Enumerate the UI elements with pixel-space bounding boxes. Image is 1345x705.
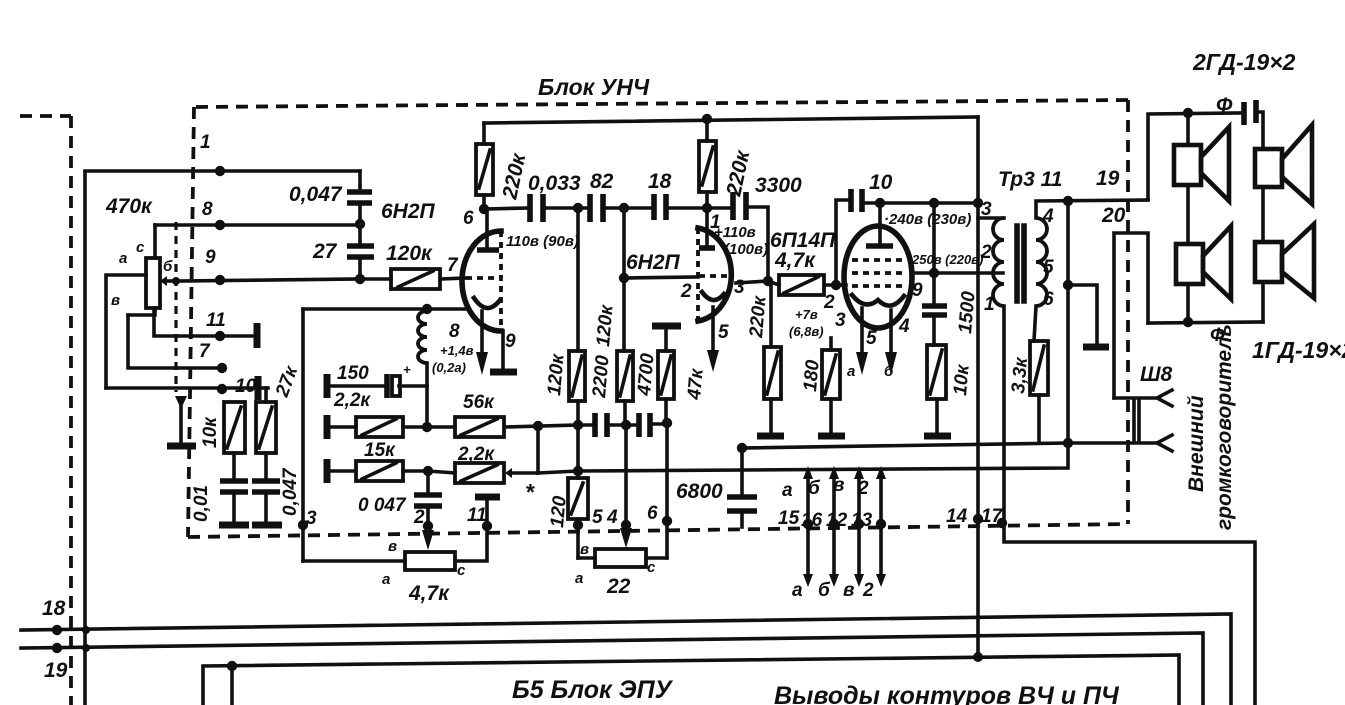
- cathode lead a with arrow: [860, 308, 864, 352]
- svg-text:в: в: [843, 580, 854, 601]
- svg-text:47к: 47к: [684, 367, 708, 402]
- triode V1b envelope arc: [698, 228, 731, 321]
- svg-text:2: 2: [857, 478, 869, 499]
- output tube cathode arc: [852, 295, 904, 306]
- svg-text:220к: 220к: [746, 294, 771, 339]
- lead 10к bottom: [232, 453, 236, 480]
- connector body parallel lines: [1134, 400, 1139, 441]
- node dot wire 9 wiper: [172, 277, 180, 285]
- speaker B horn: [1282, 125, 1312, 204]
- volume pot wiper arrow: [167, 279, 176, 283]
- electrolytic 150,0 cap: [399, 384, 427, 388]
- svg-text:2: 2: [862, 580, 874, 601]
- svg-text:б: б: [808, 478, 821, 499]
- node dot wire 1: [215, 166, 225, 176]
- transformer core bars: [1017, 226, 1024, 301]
- output tube 6П14П envelope: [844, 226, 912, 328]
- transformer primary winding: [978, 216, 1004, 220]
- svg-text:Ф: Ф: [1216, 94, 1233, 117]
- connector top pin fork: [1157, 390, 1172, 406]
- svg-text:в: в: [833, 475, 844, 496]
- wire 8: [155, 223, 360, 227]
- svg-text:2: 2: [823, 292, 835, 313]
- node dot cap junction w8: [355, 219, 365, 229]
- svg-text:4,7к: 4,7к: [774, 249, 816, 272]
- secondary bottom to 3,3к: [1034, 306, 1036, 341]
- stub wire into ЭПУ box: [230, 666, 234, 705]
- B+ vertical wire 14: [976, 117, 980, 655]
- svg-text:с: с: [457, 562, 466, 579]
- resistor row3: [356, 461, 403, 481]
- svg-text:16: 16: [801, 510, 823, 531]
- svg-text:(100в): (100в): [724, 241, 768, 258]
- svg-text:0 047: 0 047: [358, 495, 407, 516]
- node dot anode V1b: [702, 203, 712, 213]
- svg-text:22: 22: [606, 575, 631, 598]
- svg-text:15: 15: [778, 508, 800, 529]
- svg-text:2: 2: [680, 281, 692, 302]
- triode V1a pin 9 lead: [501, 331, 505, 370]
- capacitor 0,047 shunt: [252, 481, 280, 492]
- node dot cap 0,047 branch: [423, 466, 433, 476]
- resistor 4,7к grid stopper: [768, 281, 779, 285]
- svg-text:Внешний: Внешний: [1185, 395, 1208, 492]
- svg-text:12: 12: [826, 510, 848, 531]
- resistor 10к: [927, 345, 946, 399]
- svg-text:19: 19: [44, 659, 68, 682]
- node dot wire 8: [215, 220, 225, 230]
- speaker bottom wire: [1148, 322, 1263, 323]
- triode V1b flat dashed side: [696, 228, 700, 321]
- resistor 47к leg: [652, 323, 681, 330]
- connector bottom pin fork: [1157, 435, 1172, 451]
- wire 9: [176, 279, 360, 281]
- svg-text:3: 3: [835, 310, 846, 331]
- svg-text:5: 5: [866, 328, 877, 349]
- triode V1b pin3 lead: [736, 281, 768, 283]
- svg-text:4700: 4700: [634, 352, 659, 397]
- dashed lead-in top-left: [20, 114, 71, 118]
- svg-text:3,3к: 3,3к: [1008, 355, 1032, 394]
- speaker D horn: [1282, 224, 1314, 298]
- svg-text:а: а: [782, 480, 793, 501]
- capacitor 0,047 tone: [426, 471, 430, 494]
- triode V1b grid dashes: [699, 274, 728, 278]
- svg-text:7: 7: [447, 255, 459, 276]
- svg-text:13: 13: [851, 510, 873, 531]
- capacitor 1500: [922, 306, 947, 315]
- capacitor 6800: [740, 448, 744, 497]
- svg-text:а: а: [382, 571, 390, 588]
- svg-text:180: 180: [800, 359, 824, 393]
- central feedback vertical: [425, 386, 429, 427]
- svg-text:120к: 120к: [386, 242, 433, 265]
- screen bypass branch: [932, 203, 936, 306]
- ground bar 10к: [924, 433, 951, 440]
- triode V1a anode lead: [485, 209, 489, 250]
- grid wire V1b: [624, 277, 698, 278]
- terminal bar pin 11b: [475, 494, 500, 501]
- svg-text:120к: 120к: [593, 303, 618, 347]
- wire ЭПУ box top line: [203, 655, 1179, 705]
- speaker return vertical: [1066, 201, 1070, 443]
- svg-text:3: 3: [981, 199, 992, 220]
- terminal bar row2: [324, 415, 331, 439]
- resistor 3,3к: [1030, 341, 1048, 395]
- speaker loop right vertical: [1261, 187, 1265, 322]
- svg-text:120к: 120к: [544, 352, 569, 396]
- svg-text:0,01: 0,01: [191, 485, 212, 522]
- wire from pot left to down bus: [106, 275, 146, 388]
- cathode lead b with arrow: [889, 310, 893, 352]
- hum coil winding: [418, 311, 427, 363]
- svg-text:Блок УНЧ: Блок УНЧ: [538, 74, 650, 100]
- lead 120к to tube grid: [440, 278, 466, 279]
- speaker D square: [1255, 242, 1282, 282]
- vertical 56к to wiper: [536, 426, 540, 473]
- svg-text:1500: 1500: [955, 290, 980, 334]
- svg-text:0,047: 0,047: [280, 467, 301, 516]
- svg-text:+1,4в: +1,4в: [440, 343, 474, 358]
- svg-text:8: 8: [202, 199, 213, 220]
- svg-text:9: 9: [505, 331, 516, 352]
- svg-text:Тр3 11: Тр3 11: [998, 168, 1062, 191]
- dashed box Блок УНЧ bottom edge: [188, 524, 1128, 537]
- speaker C horn: [1203, 226, 1231, 299]
- connector top pin wire: [1114, 396, 1157, 400]
- triode V1b cathode lead with arrow: [711, 307, 715, 350]
- speaker A horn: [1201, 127, 1229, 201]
- node dot pin 3: [298, 520, 308, 530]
- svg-text:*: *: [525, 479, 535, 505]
- primary bottom wire 17: [1004, 306, 1255, 705]
- dashed vertical line left side: [69, 116, 73, 705]
- svg-text:2: 2: [413, 507, 425, 528]
- capacitor 18: [654, 194, 666, 220]
- svg-text:2ГД-19×2: 2ГД-19×2: [1192, 49, 1296, 75]
- svg-text:10к: 10к: [200, 416, 221, 448]
- left input bus vertical wire: [83, 172, 87, 705]
- svg-text:2200: 2200: [589, 354, 614, 399]
- node dot R2 top: [619, 203, 629, 213]
- resistor 10к vertical: [224, 402, 245, 453]
- pot 22 left lead: [578, 556, 595, 560]
- node dot pin 4: [621, 520, 631, 530]
- node dot line 18 left: [52, 625, 62, 635]
- wire 56к to RC divider: [504, 425, 578, 427]
- pot 22 right lead: [646, 556, 667, 560]
- svg-text:3: 3: [306, 508, 317, 529]
- node dot row2: [422, 422, 432, 432]
- svg-text:5: 5: [592, 507, 603, 528]
- arrow pot 22 wiper: [620, 528, 632, 548]
- svg-text:с: с: [136, 239, 145, 256]
- svg-text:б: б: [884, 363, 894, 380]
- resistor 15к: [356, 417, 403, 437]
- resistor 120к R1 leg: [576, 208, 580, 351]
- svg-text:9: 9: [205, 247, 216, 268]
- wire input line 18: [21, 614, 1231, 705]
- connector feed vertical: [1114, 233, 1148, 398]
- wire node 7 lower branch: [106, 386, 268, 390]
- capacitor 82: [590, 194, 603, 222]
- resistor 56к: [455, 417, 504, 437]
- svg-text:5: 5: [1043, 257, 1054, 278]
- wire pot bottom to node 7 lower: [128, 315, 222, 368]
- svg-text:4: 4: [898, 316, 910, 337]
- svg-text:56к: 56к: [463, 392, 495, 413]
- resistor 120: [576, 425, 580, 478]
- svg-text:250в (220в): 250в (220в): [911, 252, 983, 267]
- svg-text:4: 4: [1042, 206, 1054, 227]
- node dot pin 6: [662, 516, 672, 526]
- triode V1b anode lead: [705, 208, 709, 248]
- secondary ground branch: [1068, 285, 1097, 345]
- feedback box left wire: [301, 309, 305, 561]
- svg-text:10: 10: [869, 171, 893, 194]
- node dot pin 11b: [482, 521, 492, 531]
- resistor 120к R2 leg: [622, 208, 626, 351]
- svg-text:а: а: [847, 363, 855, 380]
- svg-text:4: 4: [606, 507, 618, 528]
- node dot on ЭПУ line: [227, 661, 237, 671]
- capacitor 3300: [733, 192, 746, 220]
- svg-text:а: а: [575, 570, 583, 587]
- ground bar 0,047: [252, 522, 282, 529]
- speaker C square: [1176, 244, 1203, 284]
- svg-text:2,2к: 2,2к: [457, 444, 495, 465]
- wire input line 19: [21, 633, 1203, 705]
- wire node C down: [665, 423, 669, 558]
- node dot R1 top: [573, 203, 583, 213]
- node dot cap junction w9: [355, 274, 365, 284]
- capacitor 10 feedback: [851, 189, 862, 212]
- svg-text:Выводы контуров ВЧ и ПЧ: Выводы контуров ВЧ и ПЧ: [774, 682, 1120, 705]
- capacitor 0,033: [530, 194, 543, 222]
- triode V1a cathode lead with arrow: [480, 311, 484, 352]
- svg-text:5: 5: [718, 322, 729, 343]
- terminal bar row1: [324, 374, 331, 398]
- svg-text:1ГД-19×2: 1ГД-19×2: [1252, 337, 1345, 363]
- svg-text:6: 6: [463, 208, 474, 229]
- node dot wire 9: [215, 275, 225, 285]
- pin 11 contact bar: [254, 323, 261, 348]
- svg-text:в: в: [580, 541, 589, 558]
- svg-text:(0,2а): (0,2а): [432, 360, 466, 375]
- capacitor 0,01: [220, 481, 248, 492]
- node dot line 19 at left bus: [82, 644, 90, 652]
- svg-text:470к: 470к: [105, 195, 153, 218]
- ground bar 220к: [757, 433, 784, 440]
- svg-text:0,047: 0,047: [289, 183, 343, 206]
- node dot line 18 at left bus: [82, 626, 90, 634]
- output tube anode lead: [878, 203, 882, 246]
- svg-text:82: 82: [590, 170, 614, 193]
- pin 10 contact bar: [255, 376, 262, 400]
- speakers feed wire A: [1148, 113, 1241, 200]
- svg-text:в: в: [388, 538, 397, 555]
- coupling capacitor 0,047 input: [358, 171, 362, 192]
- svg-text:6Н2П: 6Н2П: [381, 200, 436, 223]
- output tube grid dashes row2: [852, 271, 904, 275]
- svg-text:150: 150: [337, 363, 369, 384]
- speaker loop left vertical: [1186, 113, 1190, 322]
- terminal arrows а б в 2 group: [803, 466, 886, 587]
- wire 3300 to grid node: [746, 207, 768, 281]
- svg-text:0,033: 0,033: [528, 172, 581, 195]
- svg-text:1: 1: [984, 294, 995, 315]
- ground bar pin 9: [490, 369, 517, 376]
- svg-text:6: 6: [647, 503, 658, 524]
- pot 4,7к right lead: [455, 499, 487, 561]
- triode V1b cathode arc: [702, 292, 724, 300]
- anode wire 240в: [862, 201, 978, 205]
- node dot pin 17: [997, 518, 1007, 528]
- long correction wire: [538, 443, 1068, 473]
- svg-text:а: а: [792, 580, 803, 601]
- svg-text:110в (90в): 110в (90в): [506, 233, 579, 250]
- pot top lead: [153, 225, 157, 258]
- svg-text:+7в: +7в: [795, 307, 818, 322]
- dashed box Блок УНЧ left edge: [188, 107, 194, 537]
- svg-text:·240в (230в): ·240в (230в): [884, 211, 971, 228]
- svg-text:3300: 3300: [755, 174, 802, 197]
- resistor 120к grid: [391, 269, 440, 289]
- pot 4,7к body: [405, 552, 455, 570]
- node dot wire 14 termination: [973, 652, 983, 662]
- svg-text:18: 18: [648, 170, 672, 193]
- lead 27к bottom: [264, 453, 268, 480]
- pot 22 body: [595, 549, 646, 567]
- cathode wire V1a: [303, 307, 466, 311]
- svg-text:1: 1: [200, 132, 211, 153]
- svg-text:3: 3: [734, 277, 745, 298]
- svg-text:4,7к: 4,7к: [408, 582, 450, 605]
- svg-text:Б5 Блок ЭПУ: Б5 Блок ЭПУ: [512, 676, 674, 704]
- svg-text:15к: 15к: [364, 440, 396, 461]
- resistor 220к grid leak 6П14П: [769, 281, 773, 347]
- trimmer 2,2к: [455, 463, 504, 483]
- node dot grid junction: [763, 276, 773, 286]
- transformer secondary winding: [1036, 218, 1047, 306]
- svg-text:а: а: [119, 250, 127, 267]
- wire caps row left: [484, 208, 530, 209]
- node dot line 19 left: [52, 643, 62, 653]
- svg-text:10к: 10к: [950, 363, 974, 397]
- svg-text:27: 27: [312, 240, 338, 263]
- svg-text:19: 19: [1096, 167, 1120, 190]
- node dot anode V1a: [479, 204, 489, 214]
- ground bar secondary: [1083, 344, 1109, 351]
- svg-text:8: 8: [449, 321, 460, 342]
- node dot pin 14: [973, 514, 983, 524]
- svg-text:с: с: [647, 559, 656, 576]
- node dot wire 11: [215, 331, 225, 341]
- terminal bar row3: [324, 459, 331, 483]
- svg-text:+110в: +110в: [714, 224, 756, 241]
- node dot 3,3к junction: [1063, 438, 1073, 448]
- pot bottom lead: [128, 308, 155, 315]
- node dot wire 7b: [217, 384, 227, 394]
- svg-text:6П14П: 6П14П: [770, 229, 836, 252]
- triode V1a grid dashes: [466, 276, 500, 280]
- svg-text:б: б: [818, 580, 831, 601]
- triode V1a cathode arc: [474, 298, 500, 308]
- shield dashed line near volume pot: [174, 222, 177, 392]
- triode V1a 6Н2П envelope arc: [462, 231, 501, 331]
- screen wire 250в: [912, 271, 1003, 275]
- svg-text:в: в: [111, 292, 120, 309]
- pot wire 11 lead down: [154, 308, 252, 336]
- ground bar shield: [167, 443, 196, 450]
- node dot 2,2к branch: [533, 421, 543, 431]
- node dot pin 5: [573, 520, 583, 530]
- secondary top wire to speakers: [1036, 200, 1148, 218]
- ground bar 0,01: [219, 522, 249, 529]
- node dot grid V1b: [619, 273, 629, 283]
- svg-text:7: 7: [199, 341, 211, 362]
- resistor 220к anode V1a: [482, 123, 486, 144]
- dashed box Блок УНЧ top edge: [196, 100, 1128, 107]
- lead 27к top: [264, 388, 268, 402]
- crossover capacitor 1,0: [1244, 100, 1256, 125]
- svg-text:+: +: [403, 362, 411, 377]
- dashed box Блок УНЧ right edge: [1126, 100, 1130, 524]
- svg-text:14: 14: [946, 506, 968, 527]
- triode V1b anode bar: [699, 245, 715, 251]
- svg-text:11: 11: [467, 505, 487, 526]
- svg-text:2: 2: [980, 242, 992, 263]
- svg-text:120: 120: [547, 495, 571, 529]
- wire node B down: [624, 425, 628, 525]
- triode V1a anode bar: [477, 247, 499, 253]
- capacitor 2200: [578, 423, 593, 427]
- coil lead down: [425, 363, 429, 386]
- capacitor 4700: [639, 413, 650, 437]
- wire to grid resistor: [360, 277, 391, 281]
- svg-text:9: 9: [912, 280, 923, 301]
- resistor 27к vertical: [256, 402, 276, 453]
- ground return wire to connector: [742, 443, 1155, 448]
- RC divider caps row nodes: [573, 420, 583, 430]
- triode V1a flat dashed side: [499, 231, 503, 331]
- resistor 220к anode V1b: [705, 119, 709, 141]
- output tube grid dashes row1: [852, 258, 904, 262]
- svg-text:Ф: Ф: [1210, 325, 1225, 346]
- resistor 180 cathode: [829, 338, 833, 350]
- svg-text:6: 6: [1043, 289, 1054, 310]
- node dot wire 7a: [217, 363, 227, 373]
- svg-text:громкоговоритель: громкоговоритель: [1213, 324, 1236, 530]
- pot 4,7к left lead: [303, 559, 405, 563]
- arrow to pot в: [422, 530, 434, 550]
- node dot coil top: [422, 304, 432, 314]
- output tube anode bar: [866, 243, 893, 249]
- ground arrow for shield: [175, 396, 187, 409]
- svg-text:(6,8в): (6,8в): [789, 324, 824, 339]
- svg-text:20: 20: [1101, 204, 1126, 227]
- svg-text:10: 10: [235, 376, 257, 397]
- wire 1: [85, 169, 360, 173]
- svg-text:Ш8: Ш8: [1140, 363, 1173, 386]
- svg-text:11: 11: [206, 310, 226, 331]
- ground bar 180: [818, 433, 845, 440]
- anode supply bus: [484, 117, 978, 123]
- svg-text:6Н2П: 6Н2П: [626, 251, 681, 274]
- svg-text:18: 18: [42, 597, 66, 620]
- node dot pin 2: [423, 521, 433, 531]
- volume pot 470к body: [146, 258, 160, 308]
